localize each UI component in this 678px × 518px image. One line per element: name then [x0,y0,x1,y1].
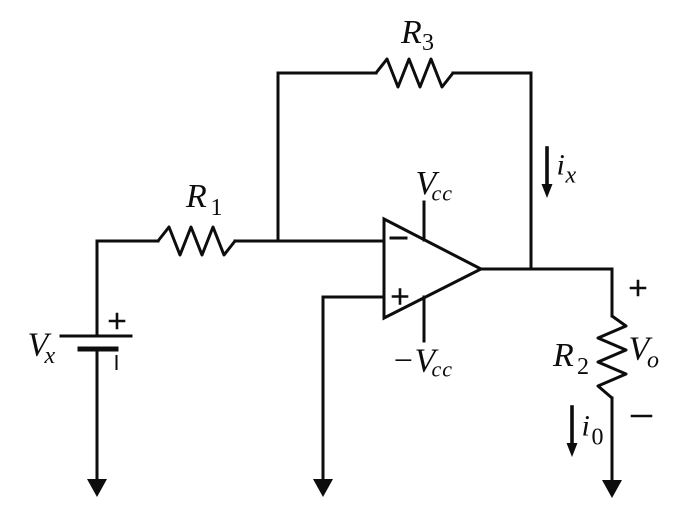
wire: output horizontal [481,268,612,271]
svg-text:i: i [557,149,565,182]
ground arrow (R2 branch) [602,480,622,498]
wire: feedback top right segment [453,72,531,75]
current arrow ix line [545,148,549,185]
output minus sign (Vo polarity) [632,415,651,418]
wire: non-inverting input vertical to ground [322,297,325,482]
wire: -Vcc supply pin [423,297,426,341]
svg-text:cc: cc [432,357,454,382]
wire: right feedback vertical [530,73,533,269]
wire: non-inverting input horizontal [323,296,384,299]
svg-text:2: 2 [577,354,589,380]
resistor R3 [376,59,453,87]
op-amp U1 [384,219,481,318]
svg-text:o: o [647,348,659,374]
op-amp non-inverting input marker (plus) [393,290,407,304]
svg-text:0: 0 [592,425,604,451]
current arrow ix head [542,184,553,198]
svg-text:x: x [565,163,577,189]
wire: left feedback vertical [277,73,280,241]
ground arrow (Vx branch) [87,479,107,497]
wire: Vx top lead [96,241,99,336]
svg-text:1: 1 [211,195,223,221]
wire: R2 bottom to ground [611,398,614,482]
wire: feedback top left segment [278,72,376,75]
svg-text:i: i [582,410,590,443]
wire: output node down to R2 [611,269,614,316]
wire: input node left segment [97,240,158,243]
battery Vx minus tick [116,356,118,369]
battery Vx bottom plate [80,347,116,352]
svg-text:R: R [552,337,574,374]
current arrow i0 line [570,407,574,444]
current arrow i0 head [567,443,578,457]
svg-text:R: R [185,178,207,215]
battery Vx top plate [61,335,131,338]
ground arrow (non-inverting branch) [313,479,333,497]
svg-text:3: 3 [422,30,434,56]
op-amp inverting input marker (minus) [391,237,406,240]
svg-text:x: x [44,343,56,369]
wire: Vcc supply pin [423,202,426,240]
wire: R1 to op-amp inverting input [235,240,384,243]
output plus sign (Vo polarity) [631,281,645,295]
svg-text:R: R [400,14,422,51]
battery plus sign [110,314,124,328]
resistor R2 [598,316,626,398]
resistor R1 [158,227,235,255]
wire: Vx bottom lead to ground [96,351,99,482]
svg-text:cc: cc [432,181,454,206]
